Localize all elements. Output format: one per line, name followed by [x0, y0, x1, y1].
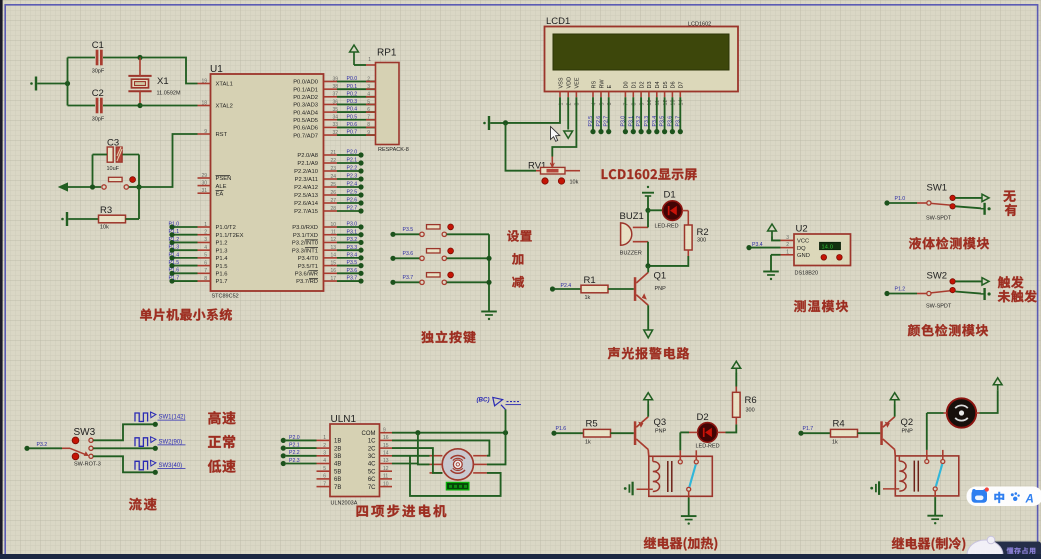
- svg-text:18: 18: [201, 100, 207, 106]
- pin P1.4 (pin 5) with net label P1.4: [198, 257, 211, 259]
- svg-text:P0.4/AD4: P0.4/AD4: [293, 110, 319, 116]
- watermark bubble: [988, 542, 1041, 557]
- svg-text:R2: R2: [697, 227, 709, 238]
- push button P3.7: [420, 280, 424, 284]
- svg-text:10k: 10k: [570, 180, 579, 186]
- svg-text:1B: 1B: [334, 439, 341, 445]
- label 独立按键: [421, 331, 475, 343]
- svg-text:P1.7: P1.7: [803, 426, 814, 432]
- svg-text:1k: 1k: [585, 295, 591, 301]
- svg-text:GND: GND: [797, 253, 810, 259]
- svg-text:STC89C52: STC89C52: [212, 294, 239, 300]
- LCD screen: [553, 34, 729, 70]
- svg-text:30pF: 30pF: [92, 69, 105, 75]
- svg-text:P2.0: P2.0: [347, 150, 358, 156]
- svg-text:ULN1: ULN1: [331, 414, 357, 425]
- svg-text:C1: C1: [92, 40, 104, 51]
- svg-text:A: A: [1025, 493, 1034, 505]
- svg-text:24: 24: [330, 174, 336, 180]
- wire motor right to power: [980, 390, 998, 413]
- svg-text:5: 5: [323, 466, 326, 472]
- relay coil ground: [637, 488, 653, 490]
- svg-text:U2: U2: [796, 224, 808, 235]
- svg-text:D3: D3: [647, 81, 653, 88]
- svg-text:1k: 1k: [832, 439, 838, 445]
- LED D2 LED-RED: [698, 423, 718, 443]
- svg-text:C2: C2: [92, 88, 104, 99]
- pin P3.2/INT0 (pin 12) with net label P3.2: [324, 241, 338, 243]
- svg-text:COM: COM: [362, 431, 376, 437]
- svg-text:P2.5: P2.5: [588, 116, 594, 127]
- svg-text:DS18B20: DS18B20: [795, 270, 819, 276]
- svg-text:D4: D4: [655, 81, 661, 88]
- svg-text:R3: R3: [100, 205, 112, 216]
- svg-text:1: 1: [204, 222, 207, 228]
- pin P3.5/T1 (pin 15) with net label P3.5: [324, 265, 338, 267]
- svg-text:6: 6: [204, 260, 207, 266]
- svg-text:D1: D1: [632, 81, 638, 88]
- wire Q1 collector to node: [647, 266, 649, 273]
- resistor R5 1k: [584, 429, 611, 437]
- svg-text:SW-ROT-3: SW-ROT-3: [74, 461, 101, 467]
- reset push button: [102, 185, 106, 189]
- svg-text:10k: 10k: [100, 225, 109, 231]
- power flag above R6: [732, 361, 741, 368]
- svg-text:P3.6: P3.6: [403, 251, 414, 257]
- svg-text:PNP: PNP: [655, 286, 667, 292]
- svg-text:30: 30: [201, 180, 207, 186]
- svg-text:PNP: PNP: [655, 429, 667, 435]
- svg-text:Q1: Q1: [654, 271, 667, 282]
- svg-text:17: 17: [330, 276, 336, 282]
- svg-text:R5: R5: [586, 418, 598, 429]
- ULN1 pin 1B (pin 1): [317, 439, 331, 441]
- svg-text:7: 7: [204, 268, 207, 274]
- svg-text:19: 19: [201, 78, 207, 84]
- ULN1 pin 3B (pin 3): [317, 455, 331, 457]
- svg-text:RST: RST: [216, 132, 228, 138]
- svg-text:1k: 1k: [585, 439, 591, 445]
- svg-text:X1: X1: [157, 76, 169, 87]
- RV1 bottom terminals: [542, 178, 548, 184]
- svg-text:P1.7: P1.7: [169, 275, 180, 281]
- svg-text:P3.4/T0: P3.4/T0: [298, 256, 318, 262]
- pulse generator SW2(90): [135, 438, 148, 447]
- label 加: [512, 253, 523, 265]
- pin EA (pin 31): [198, 192, 211, 194]
- svg-text:VEE: VEE: [575, 77, 581, 88]
- wire LCD RW net P2.6: [600, 97, 602, 129]
- relay coil ground: [883, 488, 899, 490]
- pin XTAL1 (pin 19): [198, 83, 211, 85]
- net label P2.3 to ULN1: [281, 461, 286, 466]
- svg-text:P2.2: P2.2: [347, 166, 358, 172]
- wire 2C to motor left-bottom: [392, 448, 442, 473]
- wire LCD D1 net P3.1: [632, 97, 634, 129]
- net label P3.4 to DQ: [746, 245, 751, 250]
- buzzer pins: [633, 226, 648, 228]
- svg-text:XTAL2: XTAL2: [216, 104, 233, 110]
- net label P3.6 button row: [390, 256, 395, 261]
- ULN1 pin 7B (pin 7): [317, 486, 331, 488]
- relay box: [649, 456, 713, 496]
- svg-text:P2.7: P2.7: [347, 206, 358, 212]
- svg-text:P3.6/WR: P3.6/WR: [295, 272, 318, 278]
- svg-text:3: 3: [786, 235, 789, 241]
- wire power to RP1 pin 1: [354, 64, 366, 66]
- svg-text:23: 23: [330, 166, 336, 172]
- power flag above RP1: [350, 45, 359, 52]
- pin P1.7 (pin 8) with net label P1.7: [198, 280, 211, 282]
- svg-text:BUZ1: BUZ1: [620, 211, 644, 222]
- svg-text:RS: RS: [591, 81, 597, 89]
- label 有: [1005, 204, 1017, 216]
- power flag above Q3: [644, 393, 653, 400]
- svg-text:13: 13: [330, 245, 336, 251]
- svg-text:P3.7: P3.7: [347, 276, 358, 282]
- svg-text:P2.6: P2.6: [347, 198, 358, 204]
- wire SW3 contact3 low: [93, 456, 155, 472]
- svg-text:10: 10: [330, 222, 336, 228]
- label 设置: [507, 230, 531, 242]
- pin P0.6/AD6 (pin 33) wire to RP1: [324, 126, 338, 128]
- svg-text:P2.6/A14: P2.6/A14: [294, 201, 319, 207]
- transistor Q1 PNP: [634, 277, 637, 301]
- resistor pack RP1 RESPACK-8: [376, 63, 400, 145]
- svg-text:DQ: DQ: [797, 246, 806, 252]
- pin P0.0/AD0 (pin 39) wire to RP1: [324, 81, 338, 83]
- svg-text:6: 6: [323, 474, 326, 480]
- svg-text:3C: 3C: [368, 454, 376, 460]
- wire C1 to XTAL1: [140, 58, 198, 84]
- svg-text:2C: 2C: [368, 446, 376, 452]
- pin P1.1/T2EX (pin 2) with net label P1.1: [198, 234, 211, 236]
- svg-text:P1.5: P1.5: [216, 264, 228, 270]
- button common bus: [488, 234, 490, 311]
- pin P0.3/AD3 (pin 36) wire to RP1: [324, 103, 338, 105]
- svg-text:P1.2: P1.2: [169, 237, 180, 243]
- pin P3.3/INT1 (pin 13) with net label P3.3: [324, 249, 338, 251]
- wire button P3.5 to bus: [447, 233, 489, 235]
- switch SW1 input: [884, 200, 889, 205]
- svg-text:P3.6: P3.6: [347, 268, 358, 274]
- svg-text:P3.1/TXD: P3.1/TXD: [293, 233, 318, 239]
- node junction Q1 collector: [645, 263, 650, 268]
- pin P1.3 (pin 4) with net label P1.3: [198, 249, 211, 251]
- svg-text:P1.1/T2EX: P1.1/T2EX: [216, 233, 244, 239]
- wire 3C to motor left-top: [392, 455, 430, 457]
- svg-text:P0.5/AD5: P0.5/AD5: [293, 118, 318, 124]
- svg-text:P3.2: P3.2: [636, 116, 642, 127]
- svg-text:P0.5: P0.5: [347, 114, 358, 120]
- svg-text:D0: D0: [624, 81, 630, 88]
- svg-text:P1.5: P1.5: [169, 260, 180, 266]
- svg-text:ULN2003A: ULN2003A: [331, 501, 358, 507]
- label 单片机最小系统: [140, 308, 232, 320]
- crystal X1 11.0592M: [128, 75, 151, 77]
- svg-text:P3.7: P3.7: [403, 275, 414, 281]
- svg-text:29: 29: [201, 173, 207, 179]
- svg-text:VSS: VSS: [558, 77, 564, 88]
- svg-text:14.0: 14.0: [822, 244, 834, 250]
- DS18B20 bottom dots: [821, 254, 827, 260]
- svg-text:P1.0: P1.0: [169, 221, 180, 227]
- svg-text:VCC: VCC: [797, 239, 809, 245]
- svg-text:13: 13: [383, 458, 389, 464]
- svg-text:SW1: SW1: [927, 182, 948, 193]
- pin P3.4/T0 (pin 14) with net label P3.4: [324, 257, 338, 259]
- net label P3.7 button row: [390, 280, 395, 285]
- wire LCD D4 net P3.4: [656, 97, 658, 129]
- svg-text:P0.1: P0.1: [347, 84, 358, 90]
- svg-text:P2.4: P2.4: [561, 283, 572, 289]
- svg-text:P3.5: P3.5: [403, 227, 414, 233]
- wire COM to motor left-mid: [418, 433, 430, 465]
- svg-text:P1.0/T2: P1.0/T2: [216, 225, 236, 231]
- power flag above Q2: [890, 393, 899, 400]
- svg-text:2: 2: [204, 230, 207, 236]
- relay box: [895, 456, 959, 496]
- svg-text:P2.5: P2.5: [347, 190, 358, 196]
- pin ALE (pin 30): [198, 185, 211, 187]
- svg-text:12: 12: [383, 466, 389, 472]
- capacitor C1: [68, 57, 96, 59]
- svg-text:P3.4: P3.4: [652, 116, 658, 127]
- svg-text:P2.0/A8: P2.0/A8: [297, 153, 318, 159]
- svg-text:6C: 6C: [368, 477, 376, 483]
- svg-text:(BC): (BC): [477, 397, 490, 404]
- wire 4C join: [392, 463, 418, 465]
- svg-text:P2.1/A9: P2.1/A9: [297, 161, 318, 167]
- resistor R2 300: [685, 225, 693, 250]
- power flag for U2 VCC: [768, 224, 777, 231]
- pin P2.1/A9 (pin 22) with net label P2.1: [324, 162, 338, 164]
- wire D2 to R6: [717, 431, 725, 433]
- svg-text:P3.7: P3.7: [675, 116, 681, 127]
- svg-text:LCD1602: LCD1602: [688, 22, 711, 28]
- svg-text:4C: 4C: [368, 462, 376, 468]
- resistor R1 1k: [581, 285, 608, 293]
- U2 pin DQ (pin 2): [781, 247, 795, 249]
- svg-text:P2.2/A10: P2.2/A10: [294, 169, 318, 175]
- svg-text:P0.3/AD3: P0.3/AD3: [293, 103, 318, 109]
- svg-text:RW: RW: [599, 79, 605, 89]
- wire Q1 emitter down: [647, 305, 649, 330]
- svg-text:P2.3/A11: P2.3/A11: [295, 177, 318, 183]
- capacitor C2: [68, 105, 96, 107]
- svg-text:P1.4: P1.4: [216, 256, 229, 262]
- wire button P3.6 to bus: [447, 257, 489, 259]
- display LCD1 LCD1602: [545, 27, 739, 92]
- svg-text:Q2: Q2: [901, 417, 914, 428]
- wire ground rail down to RV1: [506, 123, 537, 171]
- svg-text:7B: 7B: [334, 485, 341, 491]
- toolbar 中 icon: [995, 492, 1004, 503]
- microcontroller U1 STC89C52: [211, 74, 324, 291]
- svg-text:SW2: SW2: [927, 271, 948, 282]
- U2 pin GND (pin 1): [781, 254, 795, 256]
- switch SW2 SW-SPDT: [890, 293, 918, 295]
- net label P3.5 button row: [390, 232, 395, 237]
- svg-text:9: 9: [383, 427, 386, 433]
- relay coil: [899, 461, 906, 491]
- ULN1 pin 5C (pin 12): [380, 470, 393, 472]
- svg-text:R1: R1: [584, 275, 596, 286]
- svg-text:D1: D1: [664, 190, 676, 201]
- stepper motor M1: [442, 449, 473, 480]
- svg-text:7: 7: [323, 481, 326, 487]
- pin PSEN (pin 29): [198, 177, 211, 179]
- svg-text:300: 300: [697, 238, 706, 244]
- svg-text:P2.6: P2.6: [596, 116, 602, 127]
- svg-text:P1.6: P1.6: [556, 426, 567, 432]
- svg-text:SW-SPDT: SW-SPDT: [926, 303, 952, 309]
- wire flag drop: [505, 409, 507, 432]
- label 继电器(制冷): [892, 537, 965, 551]
- svg-text:28: 28: [330, 206, 336, 212]
- svg-text:5B: 5B: [334, 469, 341, 475]
- label 低速: [208, 460, 236, 473]
- wire R4 to Q2: [858, 432, 881, 434]
- wire COM rail: [392, 432, 506, 434]
- ULN1 pin 6B (pin 6): [317, 478, 331, 480]
- wire COM branch to motor right-mid: [487, 433, 506, 465]
- svg-text:SW2(90): SW2(90): [159, 439, 183, 445]
- svg-text:10uF: 10uF: [107, 166, 120, 172]
- wire button P3.7 to bus: [447, 281, 489, 283]
- wire LCD VEE to RV1 wiper: [552, 97, 576, 156]
- svg-text:ALE: ALE: [216, 184, 227, 190]
- svg-text:P3.7/RD: P3.7/RD: [296, 279, 318, 285]
- stepper motor pins: [430, 455, 443, 457]
- svg-text:PNP: PNP: [902, 429, 914, 435]
- push button P3.6: [420, 256, 424, 260]
- svg-text:P3.0: P3.0: [620, 116, 626, 127]
- ULN1 pin 2B (pin 2): [317, 447, 331, 449]
- pulse generator SW3(40): [135, 461, 148, 470]
- svg-text:R6: R6: [745, 395, 757, 406]
- svg-text:P1.4: P1.4: [169, 252, 180, 258]
- pin P2.7/A15 (pin 28) with net label P2.7: [324, 210, 338, 212]
- label 未触发: [998, 290, 1037, 302]
- label 无: [1003, 191, 1015, 202]
- svg-text:D5: D5: [663, 81, 669, 88]
- wire motor to relay contact: [926, 413, 928, 450]
- svg-text:P1.2: P1.2: [216, 241, 228, 247]
- svg-text:26: 26: [330, 190, 336, 196]
- svg-text:D2: D2: [697, 412, 709, 423]
- resistor R6 300: [733, 392, 741, 417]
- wire D2 to relay contact: [679, 432, 681, 450]
- svg-text:P3.1: P3.1: [628, 116, 634, 127]
- svg-text:3B: 3B: [334, 454, 341, 460]
- svg-text:30pF: 30pF: [92, 117, 105, 123]
- relay moving contact (cyan): [936, 464, 942, 486]
- svg-text:P3.4: P3.4: [347, 252, 358, 258]
- node junction at 67.5,83.5: [65, 81, 70, 86]
- pin P0.7/AD7 (pin 32) wire to RP1: [324, 134, 338, 136]
- svg-text:R4: R4: [833, 418, 845, 429]
- ground above alarm: [647, 186, 649, 188]
- label 颜色检测模块: [908, 324, 988, 336]
- wire LCD D7 net P3.7: [679, 97, 681, 129]
- label 声光报警电路: [608, 347, 690, 359]
- pin P3.1/TXD (pin 11) with net label P3.1: [324, 234, 338, 236]
- net label P2.4 input: [550, 286, 555, 291]
- power down-arrow on VDD: [567, 97, 569, 129]
- ULN1 pin COM (pin 9): [380, 432, 393, 434]
- pin P0.1/AD1 (pin 38) wire to RP1: [324, 88, 338, 90]
- svg-text:4B: 4B: [334, 462, 341, 468]
- svg-text:11: 11: [331, 230, 336, 236]
- power terminal T2: [66, 212, 68, 226]
- wire LCD D5 net P3.5: [664, 97, 666, 129]
- resistor R4 1k: [831, 429, 858, 437]
- wire LCD D6 net P3.6: [671, 97, 673, 129]
- pin P1.2 (pin 3) with net label P1.2: [198, 241, 211, 243]
- node junction ground rail: [503, 120, 508, 125]
- node junction D1-BUZ1: [645, 208, 650, 213]
- svg-text:U1: U1: [210, 64, 223, 75]
- node junction reset-right: [136, 184, 141, 189]
- mouse cursor: [551, 127, 560, 142]
- svg-text:P3.2: P3.2: [347, 237, 358, 243]
- svg-text:300: 300: [746, 407, 755, 413]
- svg-text:P0.0/AD0: P0.0/AD0: [293, 80, 318, 86]
- ground arrow terminal: [59, 183, 68, 191]
- svg-text:LCD1: LCD1: [546, 16, 570, 27]
- svg-text:2: 2: [323, 443, 326, 449]
- ULN1 pin 1C (pin 16): [380, 439, 393, 441]
- svg-text:SW1(142): SW1(142): [159, 415, 186, 421]
- wire SW3 contact2 normal: [93, 447, 155, 449]
- svg-text:P2.1: P2.1: [347, 158, 358, 164]
- svg-text:12: 12: [330, 237, 336, 243]
- svg-text:15: 15: [383, 443, 389, 449]
- relay coil: [653, 462, 660, 492]
- svg-text:3: 3: [323, 451, 326, 457]
- pin P2.4/A12 (pin 25) with net label P2.4: [324, 186, 338, 188]
- svg-text:LED-RED: LED-RED: [696, 443, 720, 449]
- svg-text:P0.4: P0.4: [347, 107, 358, 113]
- svg-text:14: 14: [383, 451, 389, 457]
- pin RST (pin 9): [198, 133, 211, 135]
- pulse generator SW1(142): [135, 413, 148, 422]
- wire LCD D3 net P3.3: [648, 97, 650, 129]
- net label P2.2 to ULN1: [281, 453, 286, 458]
- wire R1 to Q1 base: [608, 288, 634, 290]
- svg-text:11.0592M: 11.0592M: [157, 91, 181, 97]
- svg-text:16: 16: [383, 435, 389, 441]
- relay core bars: [914, 461, 918, 492]
- transistor Q2 PNP: [880, 421, 883, 445]
- svg-text:P3.3/INT1: P3.3/INT1: [292, 248, 318, 254]
- LED D1 LED-RED: [663, 201, 683, 221]
- wire LCD VSS to ground rail: [506, 97, 561, 123]
- ULN1 pin 2C (pin 15): [380, 447, 393, 449]
- svg-text:P0.0: P0.0: [347, 76, 358, 82]
- svg-text:VDD: VDD: [567, 77, 573, 89]
- svg-text:27: 27: [330, 198, 336, 204]
- svg-text:P0.1/AD1: P0.1/AD1: [293, 87, 318, 93]
- switch SW2 input: [884, 291, 889, 296]
- pin P2.6/A14 (pin 27) with net label P2.6: [324, 202, 338, 204]
- ULN1 pin 3C (pin 14): [380, 455, 393, 457]
- svg-text:RESPACK-8: RESPACK-8: [378, 147, 409, 153]
- pin P3.7/RD (pin 17) with net label P3.7: [324, 280, 338, 282]
- svg-text:PSEN: PSEN: [216, 176, 232, 182]
- svg-text:11: 11: [383, 474, 388, 480]
